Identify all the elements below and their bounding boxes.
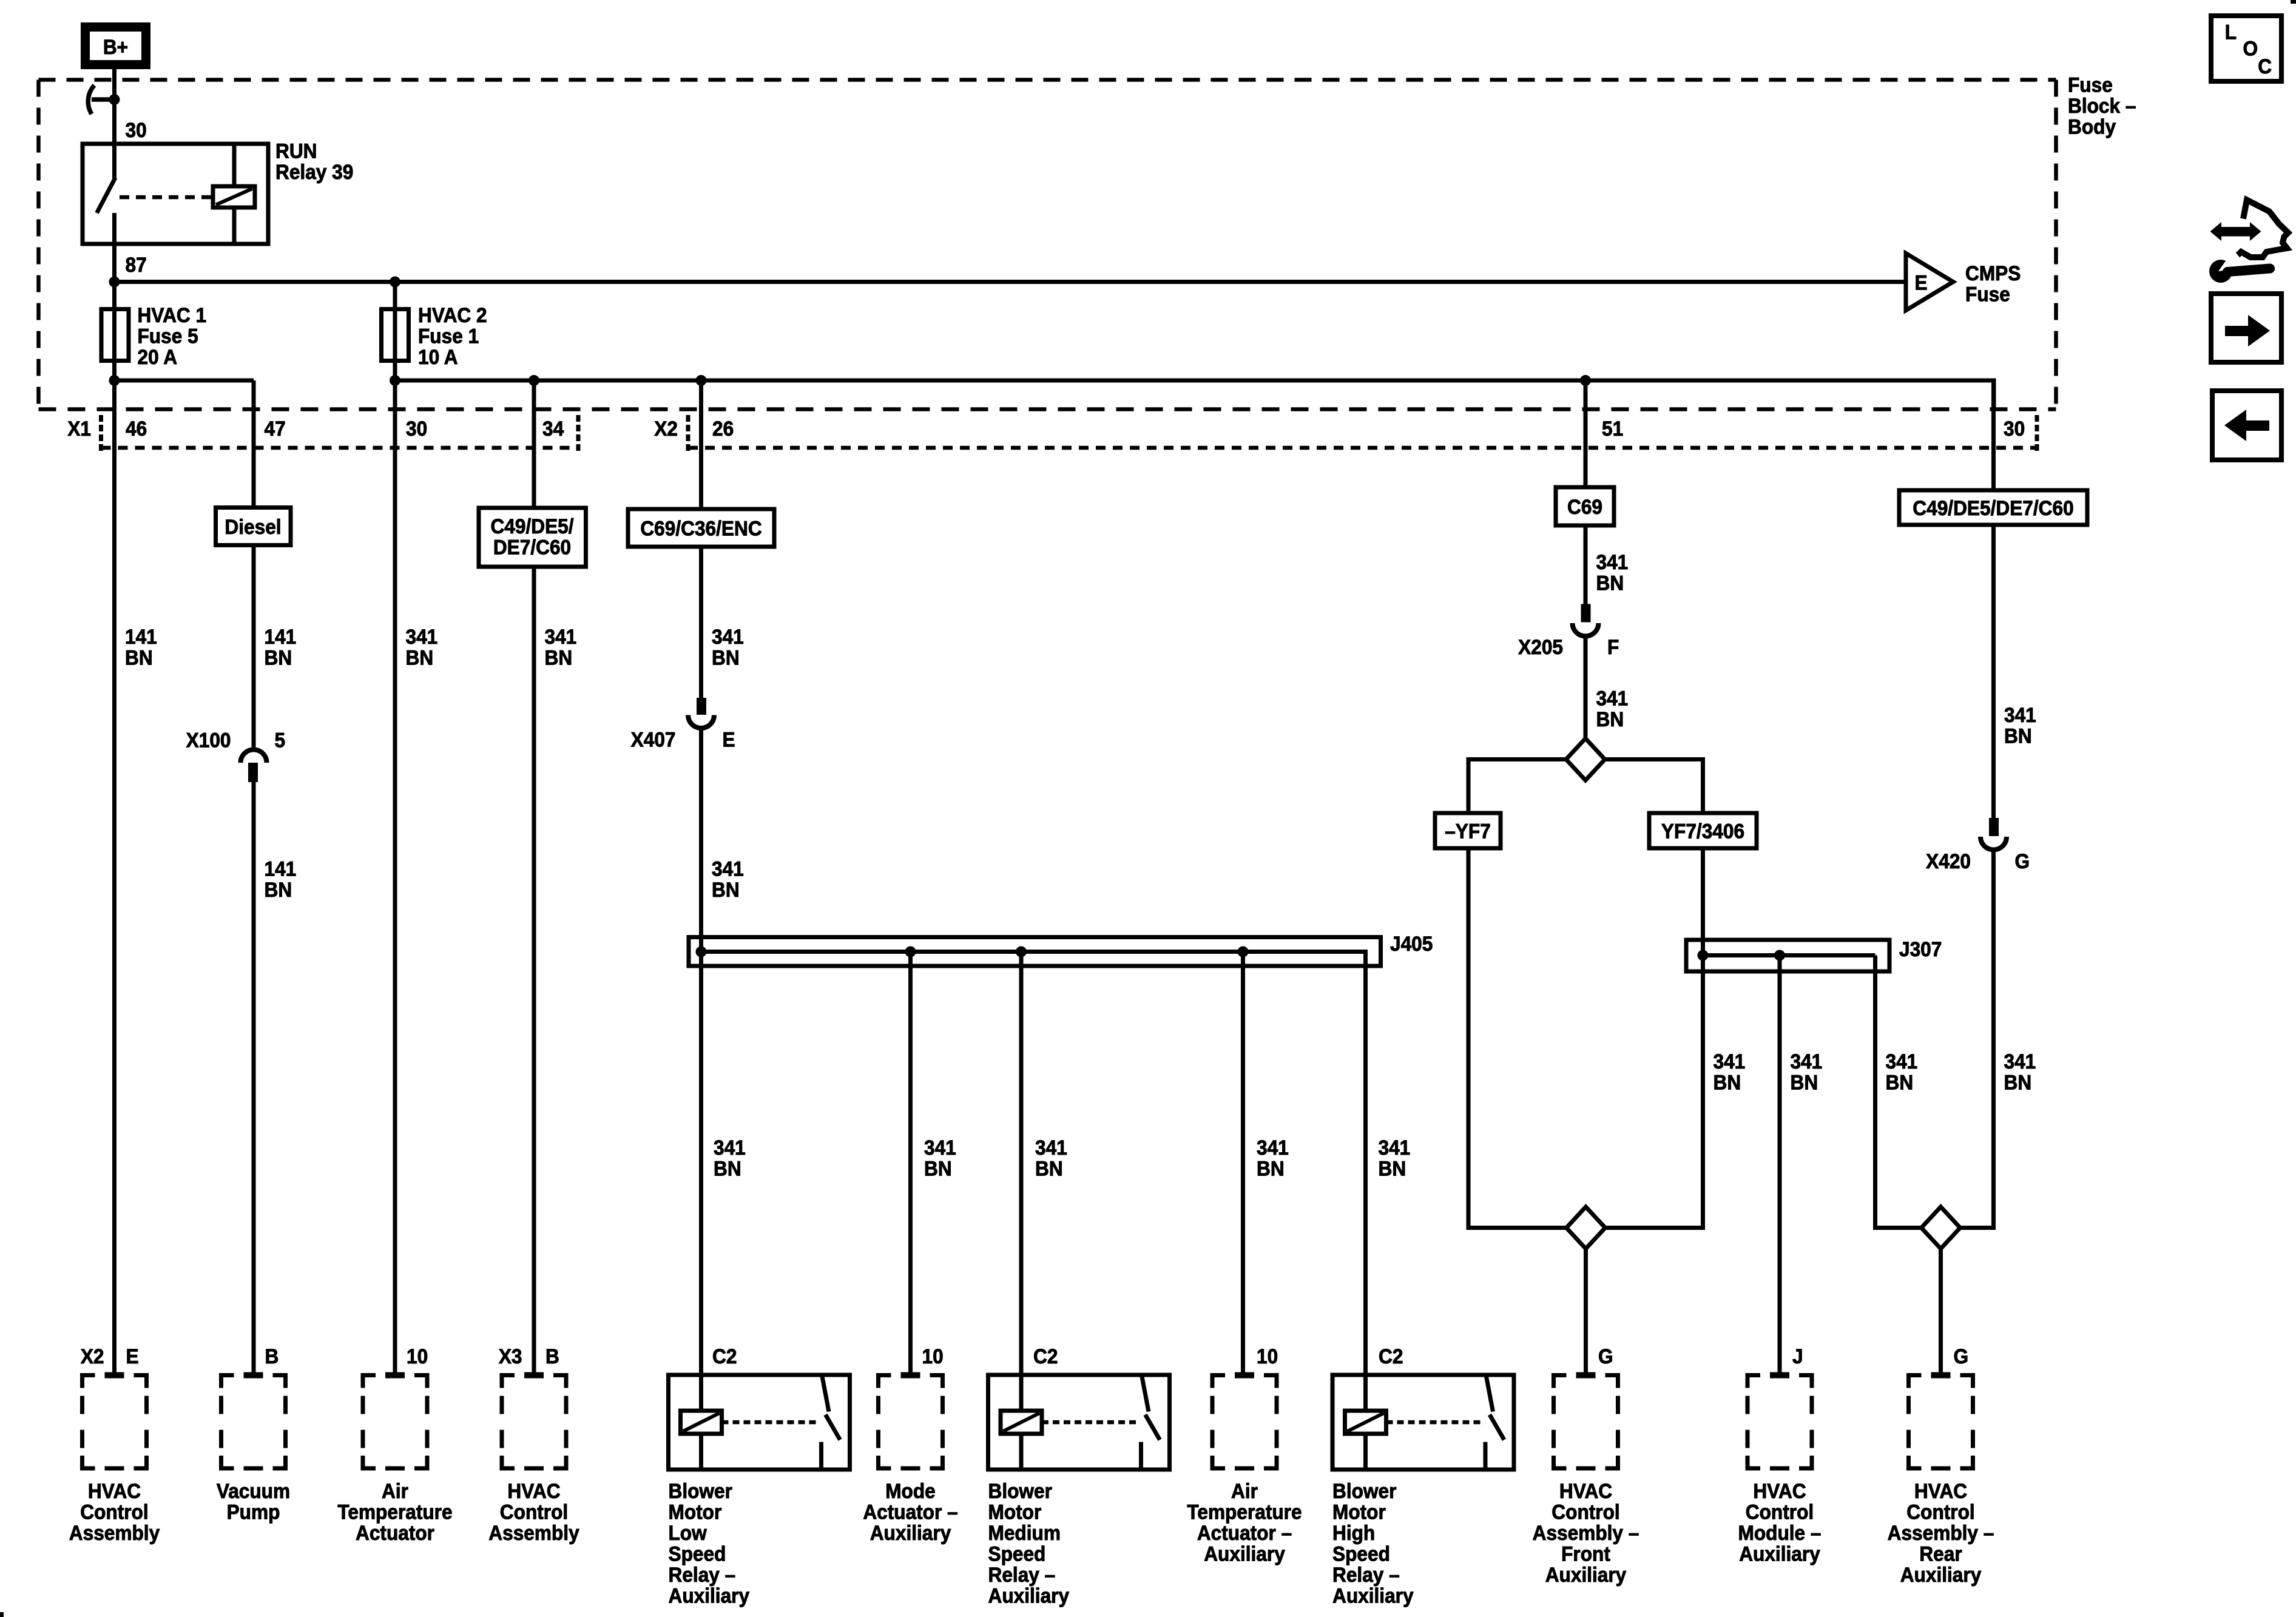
- svg-text:341BN: 341BN: [1886, 1050, 1918, 1094]
- wire J405 to Mode Actuator: [908, 952, 913, 1376]
- wire X100 to Vacuum Pump: [252, 782, 256, 1376]
- LOC reference box: [2211, 16, 2281, 81]
- terminal bar HVAC Control Assembly: [105, 1372, 124, 1379]
- svg-text:10: 10: [407, 1345, 428, 1368]
- connector band top dashed line (fuse block bottom edge): [39, 407, 2056, 411]
- terminal bar HVAC Control Assembly - Rear Auxiliary: [1931, 1372, 1951, 1379]
- relay coil wire bottom: [232, 208, 237, 244]
- relay Blower Motor High Speed Relay - Auxiliary switch: [1486, 1375, 1493, 1412]
- wire X407 to J405: [699, 728, 703, 1411]
- svg-text:X407: X407: [631, 727, 676, 751]
- fuse HVAC 2 Fuse 1 10 A: [382, 309, 409, 361]
- J405 internal bus: [701, 950, 1366, 954]
- wire fuse1 to bus: [112, 364, 116, 382]
- connector X1 divider right: [576, 415, 581, 454]
- wire diamond to -YF7: [1468, 757, 1566, 761]
- wire pin 30 to Air Temperature Actuator: [393, 380, 397, 1376]
- component dashed box HVAC Control Assembly X3: [502, 1376, 566, 1469]
- svg-text:G: G: [1598, 1345, 1613, 1368]
- wire pin 34 to C49 box: [532, 380, 536, 508]
- relay Blower Motor Low Speed Relay - Auxiliary switch: [822, 1375, 829, 1412]
- connector box C69: [1556, 487, 1614, 525]
- svg-text:30: 30: [125, 118, 146, 141]
- svg-text:141BN: 141BN: [125, 625, 157, 669]
- wire relay 87 down to CMPS feed: [112, 213, 116, 380]
- wire C49 box to HVAC Control Assembly X3: [532, 567, 536, 1376]
- diamond splice node lower left: [1567, 1207, 1606, 1249]
- svg-text:C2: C2: [1033, 1345, 1058, 1368]
- wire diamond to HVAC Control Assembly Front Aux: [1584, 1249, 1588, 1376]
- J405 junction dots: [696, 947, 707, 957]
- svg-text:51: 51: [1602, 417, 1623, 440]
- wire C69 box to X205: [1584, 525, 1588, 604]
- relay Blower Motor Low Speed Relay - Auxiliary dashed link: [722, 1420, 819, 1425]
- component dashed box HVAC Control Assembly - Rear Auxiliary: [1909, 1376, 1973, 1469]
- wire X205 to diamond: [1584, 636, 1588, 741]
- wire pin 26 to C69/C36/ENC box: [699, 380, 703, 510]
- option box C49/DE5/DE7/C60 (two line): [479, 508, 586, 567]
- svg-text:341BN: 341BN: [1035, 1136, 1067, 1180]
- bus wire fuse2 to pin 30 right: [395, 379, 1994, 383]
- junction block J307: [1686, 940, 1889, 971]
- fusible link symbol: [88, 86, 94, 115]
- svg-text:B: B: [545, 1345, 559, 1368]
- svg-text:5: 5: [275, 728, 286, 751]
- svg-text:341BN: 341BN: [712, 857, 744, 901]
- option box -YF7: [1435, 813, 1501, 848]
- connector X2 divider right: [2035, 415, 2039, 454]
- svg-text:341BN: 341BN: [1713, 1050, 1745, 1094]
- relay Blower Motor Medium Speed Relay - Auxiliary dashed link: [1042, 1420, 1139, 1425]
- connector face with wrench icon: [2235, 200, 2288, 258]
- relay Blower Motor Low Speed Relay - Auxiliary coil wire bottom: [699, 1434, 703, 1470]
- relay Blower Motor Low Speed Relay - Auxiliary box: [669, 1375, 850, 1470]
- svg-text:X3: X3: [499, 1345, 522, 1368]
- splice X420 pin G: [1989, 818, 1999, 836]
- svg-text:J: J: [1792, 1345, 1803, 1368]
- svg-text:B+: B+: [103, 35, 128, 58]
- terminal bar Air Temperature Actuator - Auxiliary: [1235, 1372, 1254, 1379]
- terminal bar Mode Actuator - Auxiliary: [901, 1372, 920, 1379]
- wire pin 51 to C69 box: [1584, 380, 1588, 487]
- svg-text:X100: X100: [186, 728, 231, 751]
- option box C69/C36/ENC: [628, 509, 774, 547]
- svg-text:E: E: [723, 727, 735, 751]
- svg-text:341BN: 341BN: [544, 625, 576, 669]
- B+ battery terminal: [86, 27, 146, 65]
- wire J405 to Blower Medium relay: [1019, 952, 1024, 1411]
- wire diamond to YF7/3406: [1605, 757, 1703, 761]
- junction block J405: [689, 937, 1381, 967]
- svg-text:26: 26: [712, 417, 734, 440]
- svg-text:X1: X1: [67, 417, 91, 440]
- back arrow box: [2212, 391, 2281, 460]
- wire pin 30 to C49/DE5/DE7/C60 box: [1991, 379, 1996, 491]
- relay RUN Relay 39 box: [83, 144, 268, 244]
- wire C49/DE5/DE7/C60 box to X420: [1991, 525, 1996, 818]
- wire X420 corner to right diamond: [1960, 1226, 1994, 1230]
- connector X2 band bottom dashed line: [688, 446, 2037, 450]
- svg-text:Diesel: Diesel: [225, 515, 281, 538]
- wire Diesel box to X100: [252, 545, 256, 751]
- relay switch blade: [97, 178, 116, 213]
- component dashed box Mode Actuator - Auxiliary: [879, 1376, 943, 1469]
- svg-text:47: 47: [265, 417, 286, 440]
- svg-text:341BN: 341BN: [1596, 686, 1628, 731]
- wire to CMPS Fuse (off-page): [115, 280, 1906, 284]
- svg-text:E: E: [126, 1345, 139, 1368]
- svg-text:G: G: [2015, 849, 2030, 873]
- svg-text:X205: X205: [1518, 635, 1563, 658]
- relay switch contact 30: [112, 144, 116, 179]
- diamond splice node upper: [1566, 738, 1605, 780]
- svg-text:O: O: [2243, 36, 2258, 59]
- component dashed box HVAC Control Assembly - Front Auxiliary: [1554, 1376, 1618, 1469]
- diamond splice node lower right: [1922, 1207, 1960, 1249]
- svg-text:141BN: 141BN: [265, 857, 297, 901]
- wire diamond to HVAC Control Assembly Rear Aux: [1939, 1249, 1943, 1376]
- wire pin 47 to Diesel box: [252, 380, 256, 508]
- wire pin 46 to HVAC Control Assembly: [112, 380, 116, 1376]
- svg-text:87: 87: [125, 253, 146, 276]
- junction dot HVAC2 tap: [390, 277, 400, 288]
- svg-text:VacuumPump: VacuumPump: [217, 1479, 290, 1524]
- relay Blower Motor Medium Speed Relay - Auxiliary coil: [1001, 1411, 1042, 1434]
- component dashed box Air Temperature Actuator - Auxiliary: [1212, 1376, 1277, 1469]
- terminal bar HVAC Control Assembly X3: [524, 1372, 544, 1379]
- svg-text:L: L: [2225, 20, 2237, 43]
- wire lower diamond left link: [1606, 1226, 1703, 1230]
- wire YF7/3406 down through J307: [1701, 848, 1705, 1230]
- svg-text:J405: J405: [1390, 932, 1433, 955]
- terminal bar HVAC Control Assembly - Front Auxiliary: [1576, 1372, 1596, 1379]
- svg-text:341BN: 341BN: [1257, 1136, 1289, 1180]
- wire B+ to relay pin 30: [112, 69, 116, 144]
- page corner marks: [2291, 0, 2296, 4]
- svg-text:341BN: 341BN: [2004, 703, 2036, 748]
- svg-text:341BN: 341BN: [714, 1136, 746, 1180]
- svg-text:X2: X2: [654, 417, 678, 440]
- wire J405 to Air Temperature Actuator Aux: [1241, 952, 1245, 1376]
- relay Blower Motor Low Speed Relay - Auxiliary coil: [681, 1411, 722, 1434]
- wire C69/C36/ENC box to X407: [699, 547, 703, 698]
- bus corner down to X2 pin 30: [1992, 379, 1996, 410]
- wire J307 to HVAC Control Module: [1778, 956, 1782, 1376]
- wire J405 to Blower High relay: [1363, 950, 1368, 1411]
- wire J307 right drop to lower right diamond: [1873, 956, 1877, 1230]
- svg-text:341BN: 341BN: [712, 625, 744, 669]
- svg-text:34: 34: [542, 417, 564, 440]
- connector X1 divider dashes: [99, 415, 103, 454]
- svg-text:341BN: 341BN: [1378, 1136, 1410, 1180]
- relay Blower Motor Medium Speed Relay - Auxiliary switch: [1142, 1375, 1149, 1412]
- svg-text:–YF7: –YF7: [1445, 819, 1491, 842]
- relay Blower Motor Medium Speed Relay - Auxiliary box: [988, 1375, 1170, 1470]
- J307 junction dots: [1698, 950, 1709, 961]
- connector X1 band bottom dashed line: [101, 446, 579, 450]
- svg-text:46: 46: [126, 417, 147, 440]
- svg-text:C49/DE5/DE7/C60: C49/DE5/DE7/C60: [1913, 496, 2073, 519]
- component dashed box Air Temperature Actuator: [363, 1376, 427, 1469]
- svg-text:F: F: [1607, 635, 1619, 658]
- svg-text:341BN: 341BN: [1790, 1050, 1822, 1094]
- wire CMPS feed to fuse 2: [393, 282, 397, 381]
- svg-text:X420: X420: [1926, 849, 1971, 873]
- junction dot 87 node: [109, 277, 120, 288]
- svg-text:J307: J307: [1899, 937, 1942, 960]
- terminal bar Air Temperature Actuator: [385, 1372, 405, 1379]
- svg-text:C2: C2: [712, 1345, 737, 1368]
- wire fuse2 to bus: [393, 364, 397, 382]
- wire -YF7 down to lower diamond: [1467, 848, 1471, 1230]
- wire X420 down to corner: [1991, 850, 1996, 1230]
- splice X407 pin E: [697, 698, 706, 715]
- terminal bar HVAC Control Module - Auxiliary: [1770, 1372, 1789, 1379]
- svg-text:141BN: 141BN: [265, 625, 297, 669]
- relay Blower Motor High Speed Relay - Auxiliary coil: [1345, 1411, 1386, 1434]
- svg-text:341BN: 341BN: [1596, 550, 1628, 595]
- terminal bar Vacuum Pump: [244, 1372, 263, 1379]
- relay actuation dashed link: [120, 195, 213, 200]
- svg-text:G: G: [1954, 1345, 1969, 1368]
- relay Blower Motor High Speed Relay - Auxiliary dashed link: [1386, 1420, 1484, 1425]
- svg-text:X2: X2: [81, 1345, 104, 1368]
- splice X100 pin 5: [241, 750, 267, 763]
- relay Blower Motor Medium Speed Relay - Auxiliary coil wire bottom: [1019, 1434, 1024, 1470]
- svg-text:B: B: [265, 1345, 279, 1368]
- component dashed box Vacuum Pump: [221, 1376, 286, 1469]
- svg-text:10: 10: [1257, 1345, 1278, 1368]
- svg-text:E: E: [1914, 271, 1927, 294]
- svg-text:30: 30: [2004, 417, 2025, 440]
- splice X205 pin F: [1581, 604, 1591, 623]
- option box C49/DE5/DE7/C60 (right): [1899, 490, 2087, 525]
- fuse block - body dashed outline: [39, 78, 2056, 82]
- svg-text:YF7/3406: YF7/3406: [1661, 819, 1744, 842]
- connector X2 divider left: [686, 415, 690, 454]
- bus wire fuse1 to pin 47: [115, 379, 254, 383]
- svg-text:30: 30: [406, 417, 427, 440]
- relay coil: [213, 186, 255, 208]
- relay Blower Motor High Speed Relay - Auxiliary box: [1332, 1375, 1514, 1470]
- svg-text:C69/C36/ENC: C69/C36/ENC: [640, 516, 761, 539]
- off-page triangle E to CMPS Fuse: [1906, 254, 1953, 311]
- relay coil wire top: [232, 144, 237, 186]
- svg-text:C49/DE5/DE7/C60: C49/DE5/DE7/C60: [490, 515, 573, 559]
- J307 internal bus: [1703, 953, 1876, 957]
- option box Diesel: [216, 508, 291, 545]
- option box YF7/3406: [1649, 813, 1757, 848]
- junction dot at fusible link: [109, 94, 120, 105]
- junction dots on bus: [109, 375, 120, 386]
- component dashed box HVAC Control Assembly: [83, 1376, 147, 1469]
- fuse HVAC 1 Fuse 5 20 A: [101, 309, 129, 361]
- svg-text:C69: C69: [1567, 495, 1602, 518]
- svg-text:341BN: 341BN: [2004, 1050, 2036, 1094]
- svg-text:C2: C2: [1379, 1345, 1403, 1368]
- forward arrow box: [2211, 294, 2281, 362]
- svg-text:C: C: [2258, 55, 2272, 78]
- component dashed box HVAC Control Module - Auxiliary: [1747, 1376, 1812, 1469]
- relay Blower Motor High Speed Relay - Auxiliary coil wire bottom: [1363, 1434, 1368, 1470]
- svg-text:341BN: 341BN: [924, 1136, 956, 1180]
- svg-text:341BN: 341BN: [406, 625, 438, 669]
- svg-text:10: 10: [922, 1345, 943, 1368]
